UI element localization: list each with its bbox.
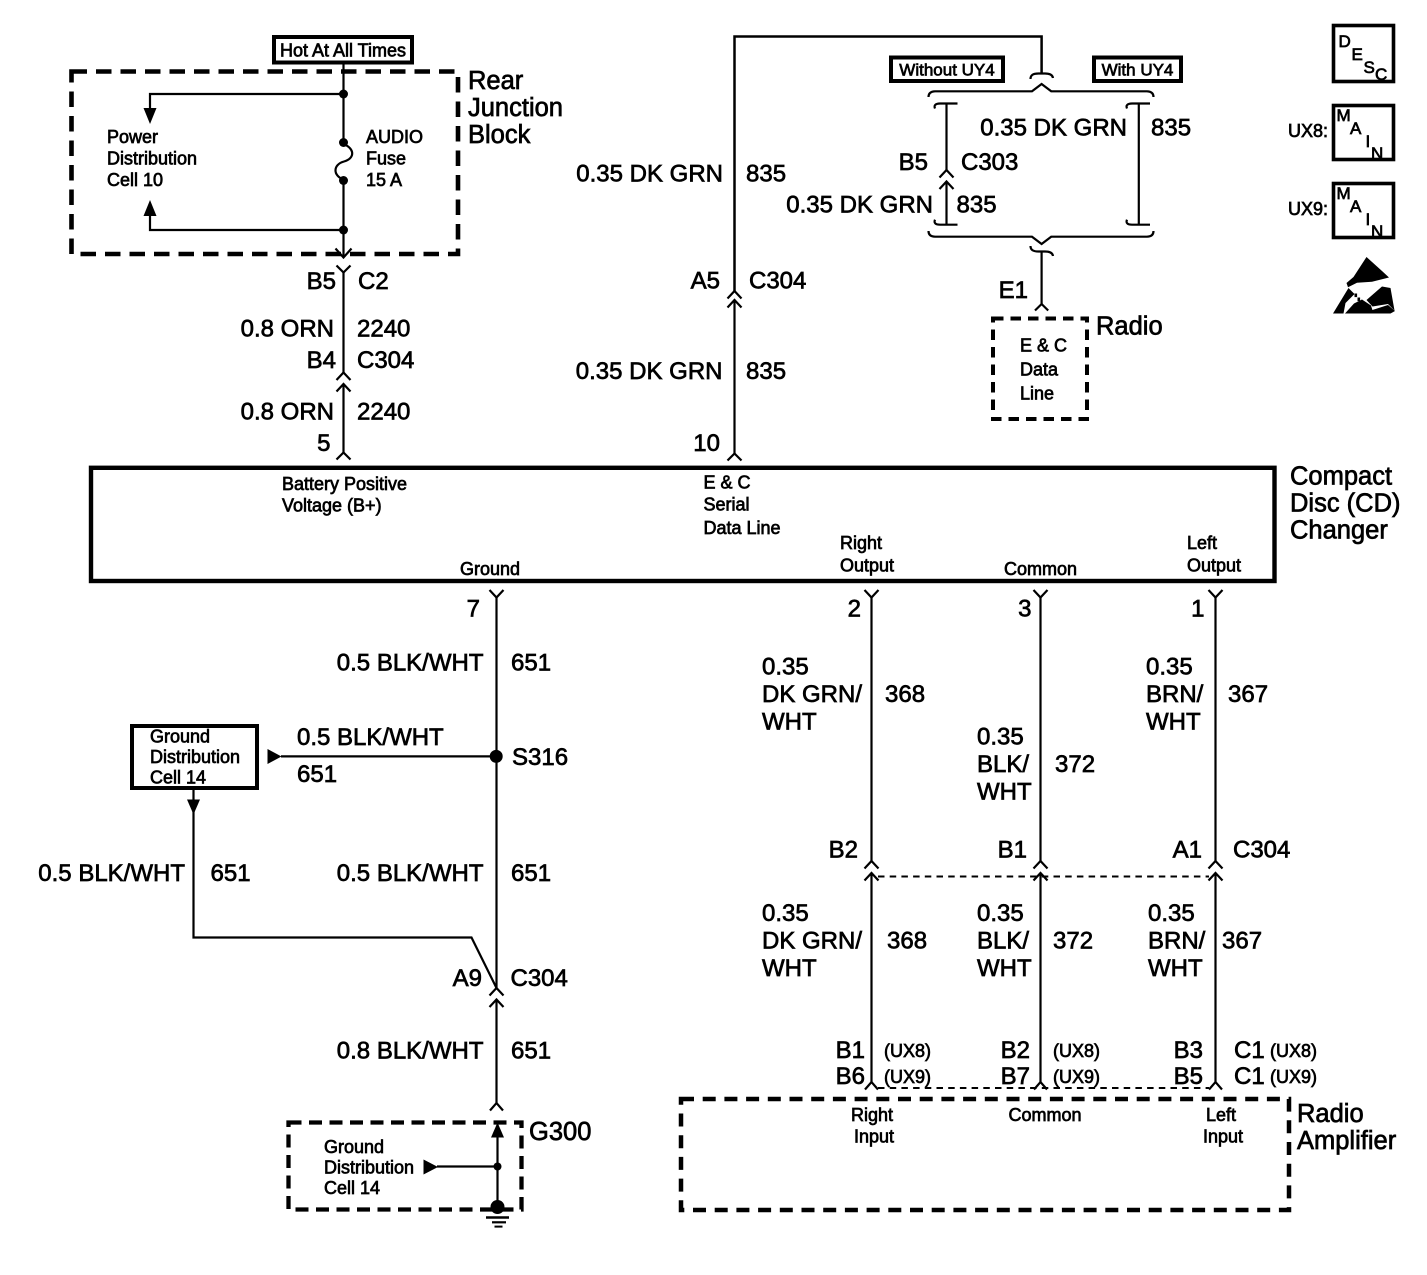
svg-text:Cell 14: Cell 14 <box>150 768 206 788</box>
svg-text:A9: A9 <box>453 965 482 992</box>
svg-text:Input: Input <box>854 1127 894 1147</box>
svg-text:D: D <box>1339 32 1351 51</box>
fuse AUDIO 15A: element symbol <box>339 138 348 147</box>
svg-text:E1: E1 <box>999 277 1028 304</box>
svg-text:0.35: 0.35 <box>762 900 809 927</box>
svg-text:372: 372 <box>1053 928 1093 955</box>
svg-text:Compact: Compact <box>1290 463 1392 491</box>
svg-text:0.35: 0.35 <box>1148 900 1195 927</box>
svg-text:S316: S316 <box>512 744 568 771</box>
svg-text:5: 5 <box>317 430 330 457</box>
svg-text:0.35: 0.35 <box>762 654 809 681</box>
svg-text:B5: B5 <box>1174 1063 1203 1090</box>
svg-text:0.8 ORN: 0.8 ORN <box>241 399 334 426</box>
svg-text:Common: Common <box>1004 559 1077 579</box>
svg-text:C304: C304 <box>357 347 414 374</box>
svg-text:B7: B7 <box>1001 1063 1030 1090</box>
svg-text:B1: B1 <box>836 1037 865 1064</box>
svg-text:B4: B4 <box>307 347 336 374</box>
svg-text:C304: C304 <box>511 965 568 992</box>
svg-text:Input: Input <box>1203 1127 1243 1147</box>
svg-text:0.35: 0.35 <box>977 724 1024 751</box>
CD changer box <box>91 468 1275 581</box>
pin 2 fork <box>865 590 879 598</box>
arrow from ground distribution box <box>268 749 282 764</box>
svg-text:B2: B2 <box>1001 1037 1030 1064</box>
svg-text:I: I <box>1366 210 1371 229</box>
fork into radio amplifier common <box>1034 1082 1047 1090</box>
G300 ground dashed box <box>289 1123 522 1210</box>
svg-text:Ground: Ground <box>150 727 210 747</box>
svg-text:0.5 BLK/WHT: 0.5 BLK/WHT <box>337 650 484 677</box>
label box: Hot At All Times <box>274 37 412 63</box>
svg-text:0.5 BLK/WHT: 0.5 BLK/WHT <box>38 860 185 887</box>
svg-text:C304: C304 <box>1233 837 1290 864</box>
svg-text:B3: B3 <box>1174 1037 1203 1064</box>
svg-text:WHT: WHT <box>977 955 1032 982</box>
svg-text:Distribution: Distribution <box>107 149 197 169</box>
svg-text:15 A: 15 A <box>366 170 402 190</box>
splice S316 <box>490 750 503 763</box>
svg-text:B2: B2 <box>829 837 858 864</box>
arrow up into G300 <box>491 1123 504 1138</box>
svg-text:BRN/: BRN/ <box>1146 681 1204 708</box>
svg-text:E & C: E & C <box>704 473 751 493</box>
svg-text:2240: 2240 <box>357 399 410 426</box>
svg-text:Output: Output <box>840 556 894 576</box>
svg-text:(UX9): (UX9) <box>884 1067 931 1087</box>
svg-text:0.5 BLK/WHT: 0.5 BLK/WHT <box>297 724 444 751</box>
svg-text:C304: C304 <box>749 268 806 295</box>
svg-text:M: M <box>1337 106 1351 125</box>
svg-text:C1: C1 <box>1234 1063 1265 1090</box>
wire: box to S316 <box>281 755 492 757</box>
svg-text:A5: A5 <box>691 268 720 295</box>
svg-text:C: C <box>1375 65 1387 84</box>
svg-text:0.35 DK GRN: 0.35 DK GRN <box>576 358 723 385</box>
pin 3 fork <box>1034 590 1048 598</box>
svg-text:Power: Power <box>107 127 158 147</box>
svg-text:N: N <box>1371 144 1383 163</box>
svg-text:0.8 BLK/WHT: 0.8 BLK/WHT <box>337 1038 484 1065</box>
svg-text:G300: G300 <box>529 1118 591 1146</box>
svg-text:Common: Common <box>1008 1105 1081 1125</box>
ground distribution cell box (upper) <box>132 726 257 788</box>
closing brace <box>929 231 1154 244</box>
svg-text:367: 367 <box>1222 928 1262 955</box>
svg-text:Serial: Serial <box>704 495 750 515</box>
svg-text:WHT: WHT <box>762 709 817 736</box>
svg-text:WHT: WHT <box>1146 709 1201 736</box>
wire: left input down <box>1214 873 1216 1082</box>
svg-text:835: 835 <box>1151 115 1191 142</box>
wire: right output from pin 2 <box>870 598 872 862</box>
svg-text:2: 2 <box>848 596 861 623</box>
wire: A5 up and across to UY4 split <box>735 37 1042 292</box>
svg-text:835: 835 <box>746 161 786 188</box>
wire: hot feed down from Hot At All Times <box>342 62 344 143</box>
wire: left output from pin 1 <box>1214 598 1216 862</box>
svg-text:0.35: 0.35 <box>977 900 1024 927</box>
svg-text:Disc (CD): Disc (CD) <box>1290 490 1400 518</box>
svg-text:(UX8): (UX8) <box>1053 1041 1100 1061</box>
svg-text:C2: C2 <box>358 268 389 295</box>
connector C304 double chevron at A9 <box>490 988 504 996</box>
svg-text:WHT: WHT <box>1148 955 1203 982</box>
wire: A9 to G300 <box>495 1000 497 1104</box>
svg-text:Changer: Changer <box>1290 517 1388 545</box>
svg-text:0.5 BLK/WHT: 0.5 BLK/WHT <box>337 860 484 887</box>
svg-text:DK GRN/: DK GRN/ <box>762 681 862 708</box>
connector C304 double chevron <box>337 373 351 381</box>
ground G300 symbol <box>486 1200 509 1227</box>
svg-text:651: 651 <box>511 1038 551 1065</box>
svg-text:DK GRN/: DK GRN/ <box>762 928 862 955</box>
svg-text:I: I <box>1366 132 1371 151</box>
with-UY4 branch bar <box>1127 104 1150 225</box>
svg-text:AUDIO: AUDIO <box>366 127 423 147</box>
radio amplifier dashed box <box>681 1099 1289 1210</box>
svg-text:651: 651 <box>511 860 551 887</box>
radio dashed box <box>993 319 1087 420</box>
svg-text:Cell 14: Cell 14 <box>324 1178 380 1198</box>
ESD sensitive device symbol <box>1333 257 1395 314</box>
arrow down leaving junction block (open head) <box>342 248 344 258</box>
svg-text:A1: A1 <box>1173 837 1202 864</box>
svg-text:Output: Output <box>1187 556 1241 576</box>
svg-text:(UX8): (UX8) <box>884 1041 931 1061</box>
svg-text:S: S <box>1364 58 1375 77</box>
fork into radio amplifier left input <box>1209 1082 1222 1090</box>
svg-text:WHT: WHT <box>977 779 1032 806</box>
svg-text:Battery Positive: Battery Positive <box>282 474 407 494</box>
label box: With UY4 <box>1094 58 1181 82</box>
wire: branch to Power Distribution (top) <box>150 94 344 110</box>
svg-text:Right: Right <box>840 533 882 553</box>
wire: G300 stem <box>496 1136 498 1203</box>
wire: branch from box bottom down and across <box>194 790 497 988</box>
wire: common down <box>1039 873 1041 1082</box>
svg-text:Right: Right <box>851 1105 893 1125</box>
arrow up to Power Distribution <box>144 200 157 216</box>
svg-text:Data: Data <box>1020 360 1059 380</box>
node: junction dot on stem <box>494 1163 502 1171</box>
svg-text:367: 367 <box>1228 681 1268 708</box>
svg-text:368: 368 <box>885 681 925 708</box>
svg-text:E: E <box>1352 45 1363 64</box>
svg-text:With UY4: With UY4 <box>1102 61 1174 80</box>
wire: common from pin 3 <box>1039 598 1041 862</box>
svg-text:Without UY4: Without UY4 <box>899 61 994 80</box>
svg-text:C303: C303 <box>961 149 1018 176</box>
svg-text:0.35 DK GRN: 0.35 DK GRN <box>786 192 933 219</box>
pin 10 fork <box>728 454 742 461</box>
svg-text:A: A <box>1350 197 1362 216</box>
svg-text:651: 651 <box>297 761 337 788</box>
svg-text:Cell 10: Cell 10 <box>107 170 163 190</box>
connector C304 double chevron at A1 <box>1209 861 1223 881</box>
svg-text:N: N <box>1371 222 1383 241</box>
fork at G300 <box>490 1103 503 1111</box>
svg-text:0.8 ORN: 0.8 ORN <box>241 316 334 343</box>
wire: C304 to CD changer pin 5 <box>342 384 344 453</box>
dashed connector line C304 <box>878 876 1209 878</box>
svg-text:368: 368 <box>887 928 927 955</box>
svg-text:B6: B6 <box>836 1063 865 1090</box>
svg-text:M: M <box>1337 184 1351 203</box>
svg-text:WHT: WHT <box>762 955 817 982</box>
svg-text:Amplifier: Amplifier <box>1297 1127 1397 1155</box>
svg-text:B5: B5 <box>307 268 336 295</box>
svg-text:Radio: Radio <box>1096 313 1163 341</box>
svg-text:835: 835 <box>957 192 997 219</box>
rear junction block dashed box <box>72 72 459 255</box>
legend DESC box <box>1334 26 1394 85</box>
svg-text:Line: Line <box>1020 384 1054 404</box>
svg-text:UX9:: UX9: <box>1288 199 1328 219</box>
wire: fuse to lower junction <box>342 181 344 249</box>
svg-text:Ground: Ground <box>324 1137 384 1157</box>
wire: to radio E1 <box>1040 252 1042 305</box>
wire: right input down <box>870 873 872 1082</box>
svg-text:Radio: Radio <box>1297 1100 1364 1128</box>
svg-text:(UX9): (UX9) <box>1053 1067 1100 1087</box>
svg-text:(UX9): (UX9) <box>1270 1067 1317 1087</box>
svg-text:BLK/: BLK/ <box>977 928 1029 955</box>
svg-text:2240: 2240 <box>357 316 410 343</box>
connector C2 fork at B5 <box>337 266 351 273</box>
svg-text:Fuse: Fuse <box>366 149 406 169</box>
svg-text:E & C: E & C <box>1020 336 1067 356</box>
wire: branch to Power Distribution (bottom) <box>150 214 344 230</box>
opening brace <box>929 84 1154 97</box>
svg-text:Hot At All Times: Hot At All Times <box>280 41 406 61</box>
svg-text:Ground: Ground <box>460 559 520 579</box>
pin 5 fork into CD changer <box>337 453 351 460</box>
svg-text:C1: C1 <box>1234 1037 1265 1064</box>
svg-text:B1: B1 <box>998 837 1027 864</box>
svg-text:1: 1 <box>1191 596 1204 623</box>
wire: ground from pin 7 down <box>495 598 497 989</box>
svg-text:Block: Block <box>468 121 531 149</box>
svg-text:651: 651 <box>511 650 551 677</box>
arrow down on branch wire <box>187 800 200 815</box>
node: junction dot top <box>339 90 348 99</box>
svg-text:Left: Left <box>1187 533 1217 553</box>
svg-text:0.35: 0.35 <box>1146 654 1193 681</box>
svg-text:BLK/: BLK/ <box>977 751 1029 778</box>
svg-text:B5: B5 <box>899 149 928 176</box>
svg-text:BRN/: BRN/ <box>1148 928 1206 955</box>
label box: Without UY4 <box>891 58 1003 82</box>
svg-text:Distribution: Distribution <box>150 747 240 767</box>
svg-text:10: 10 <box>693 430 720 457</box>
without-UY4 branch bar <box>935 104 958 225</box>
wire: E&C serial data up from pin 10 <box>733 301 735 453</box>
svg-text:7: 7 <box>467 596 480 623</box>
connector C304 double chevron at B2 <box>865 861 879 881</box>
break squiggle below brace <box>1031 246 1054 256</box>
pin 1 fork <box>1209 590 1223 598</box>
svg-text:Data Line: Data Line <box>704 518 781 538</box>
connector C304 double chevron at A5 <box>728 300 742 308</box>
svg-text:0.35 DK GRN: 0.35 DK GRN <box>980 115 1127 142</box>
svg-text:(UX8): (UX8) <box>1270 1041 1317 1061</box>
pin 7 fork <box>490 590 504 598</box>
svg-text:Junction: Junction <box>468 94 563 122</box>
svg-text:0.35 DK GRN: 0.35 DK GRN <box>576 161 723 188</box>
svg-text:UX8:: UX8: <box>1288 121 1328 141</box>
pin E1 fork into radio <box>1035 304 1048 311</box>
svg-text:Rear: Rear <box>468 67 524 95</box>
dashed connector line at radio amplifier <box>878 1087 1209 1089</box>
svg-text:835: 835 <box>746 358 786 385</box>
svg-text:Distribution: Distribution <box>324 1158 414 1178</box>
svg-text:3: 3 <box>1018 596 1031 623</box>
svg-text:Voltage (B+): Voltage (B+) <box>282 496 382 516</box>
arrow down to Power Distribution <box>144 108 157 124</box>
svg-text:A: A <box>1350 119 1362 138</box>
arrow from ground distribution (G300) <box>424 1160 439 1175</box>
node: junction dot bottom <box>339 226 348 235</box>
wire: to stem <box>437 1165 498 1167</box>
fork into radio amplifier right input <box>865 1082 878 1090</box>
wire: B5/C2 to B4/C304 <box>342 273 344 373</box>
svg-text:651: 651 <box>211 860 251 887</box>
break squiggle at UY4 split <box>1031 74 1054 80</box>
svg-text:Left: Left <box>1206 1105 1236 1125</box>
svg-text:372: 372 <box>1055 751 1095 778</box>
connector C304 double chevron at B1 <box>1034 861 1048 881</box>
